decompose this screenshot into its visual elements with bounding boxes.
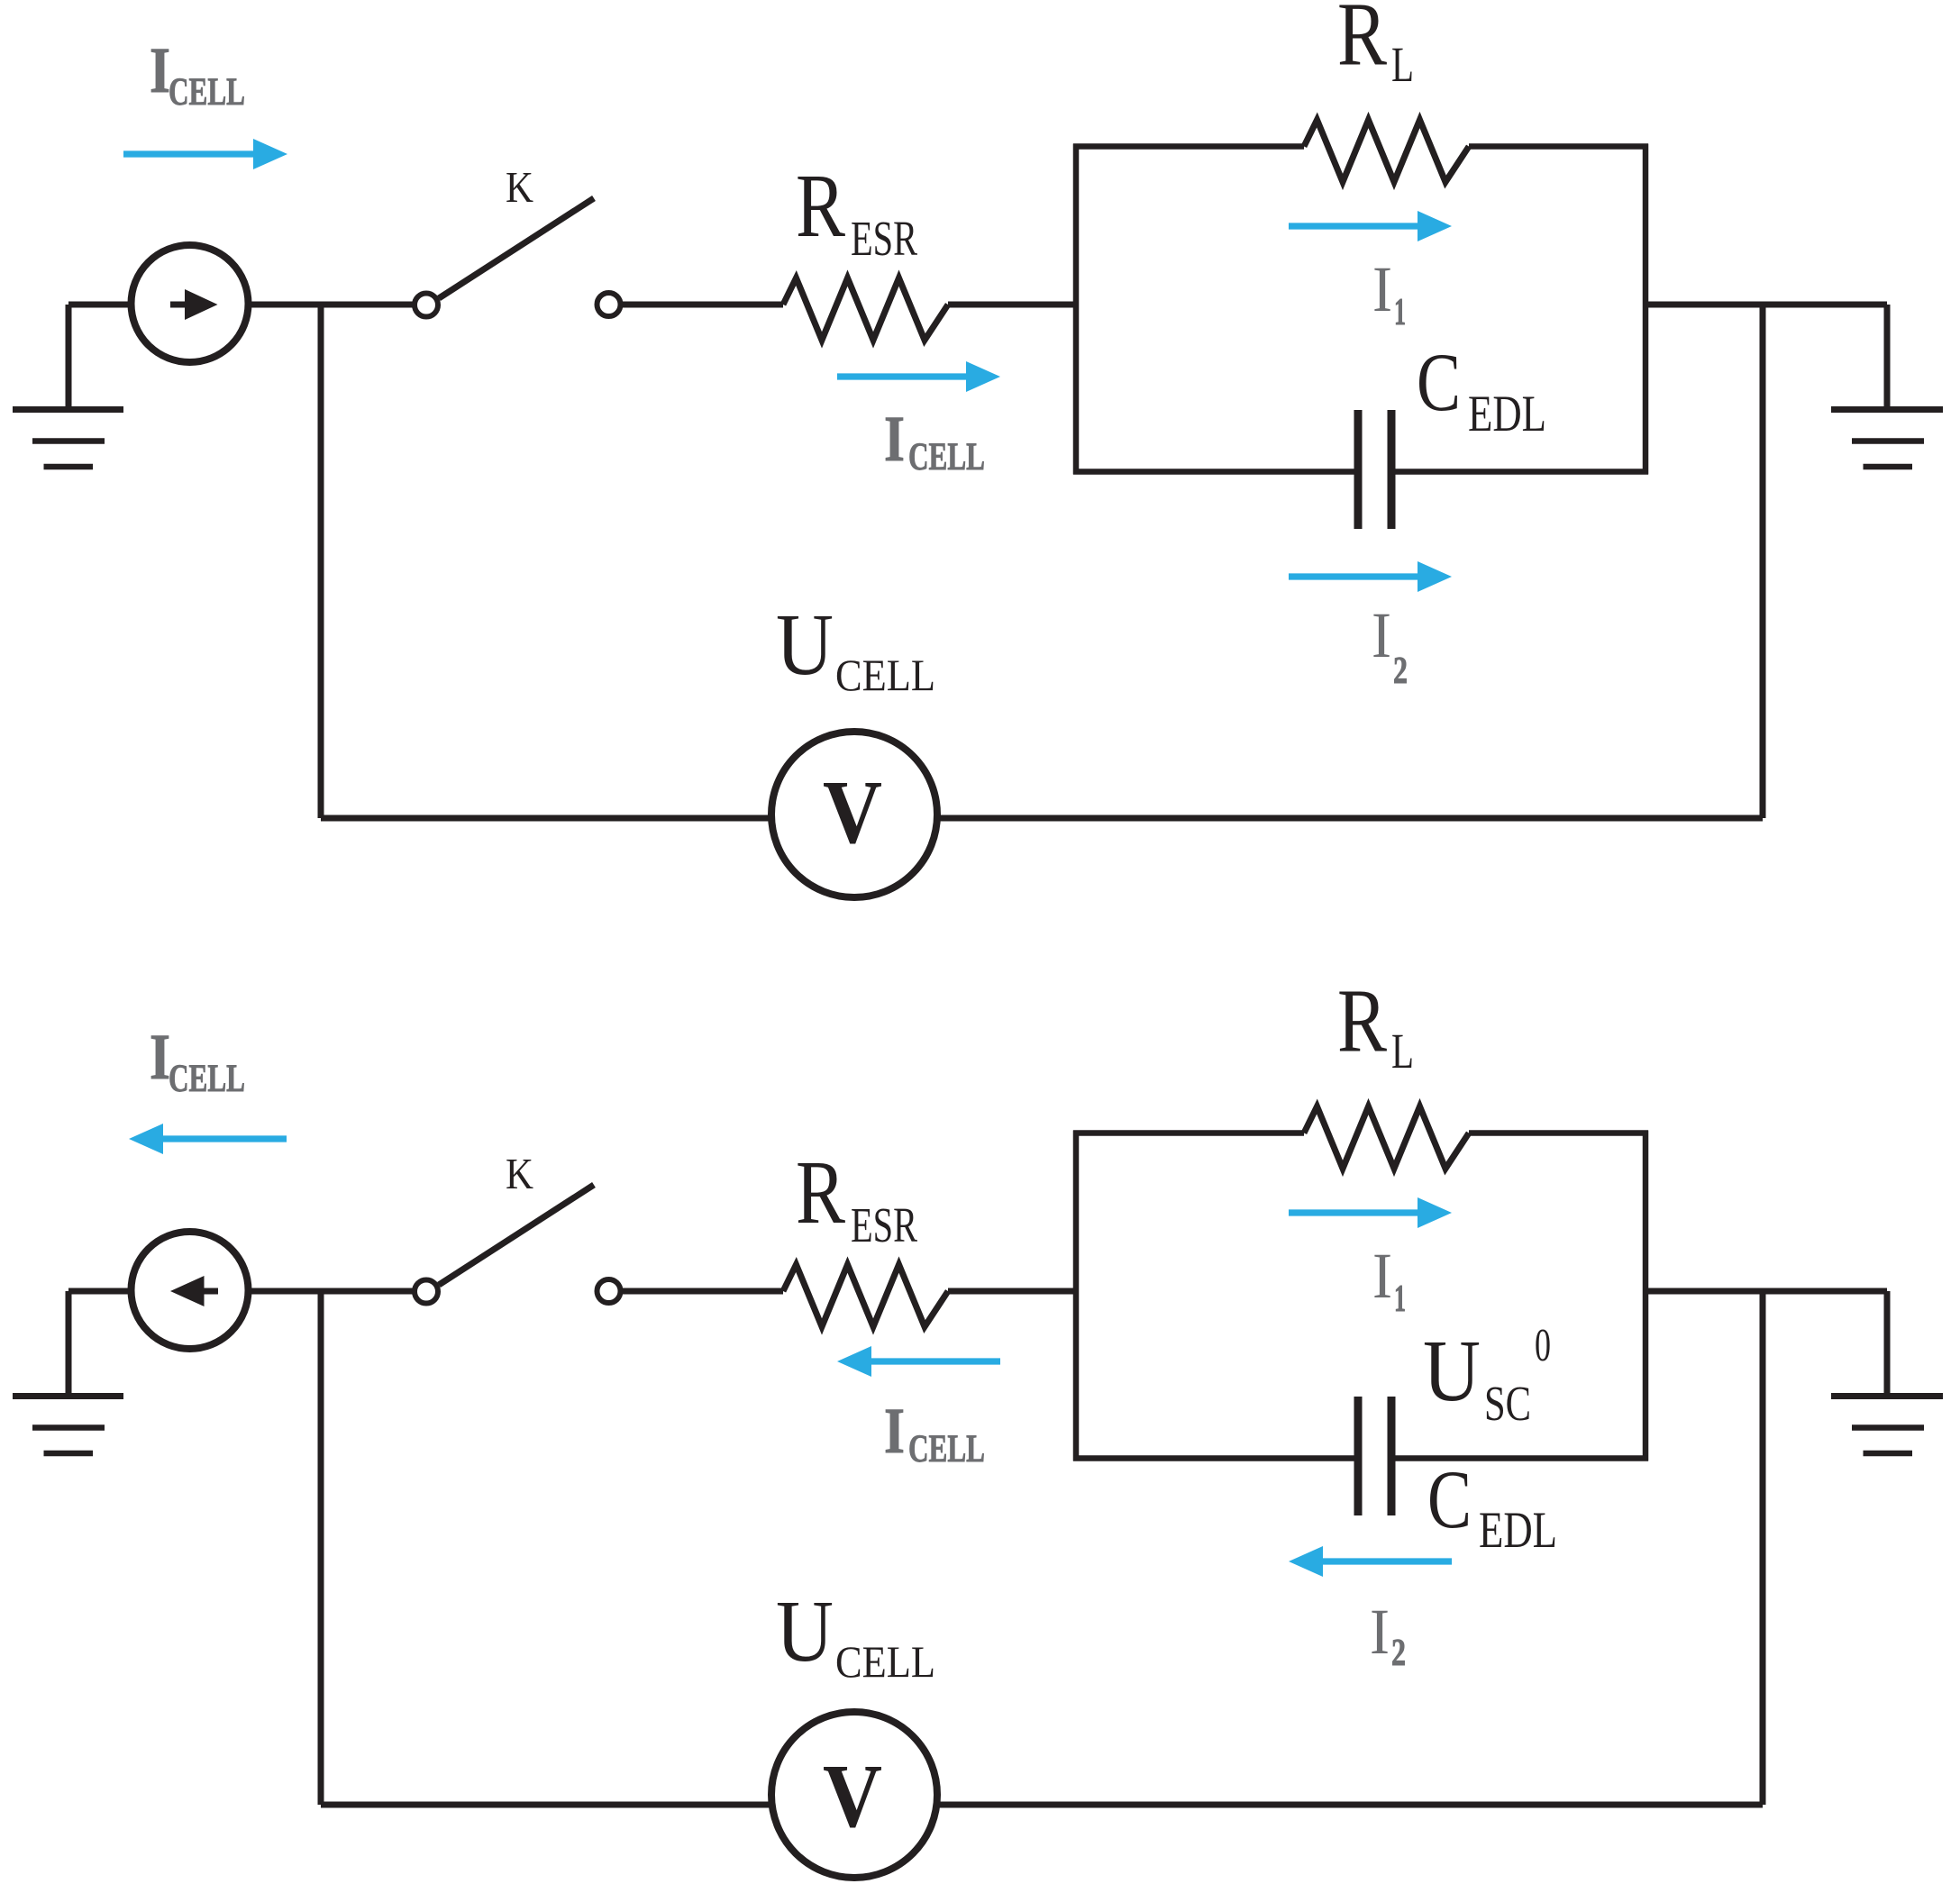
svg-text:U: U bbox=[1423, 1323, 1481, 1419]
svg-text:1: 1 bbox=[1394, 1279, 1406, 1320]
arrow I_1 direction (bottom) bbox=[1289, 1197, 1452, 1228]
svg-text:K: K bbox=[506, 162, 533, 212]
svg-text:CELL: CELL bbox=[169, 71, 245, 114]
svg-text:1: 1 bbox=[1394, 292, 1406, 333]
label C_EDL (top) bbox=[1417, 336, 1546, 442]
svg-text:I: I bbox=[1370, 1596, 1390, 1668]
wire: RC loop bottom right segment (top) bbox=[1391, 469, 1648, 475]
switch K (top) bbox=[415, 198, 621, 317]
label I_2 (top) bbox=[1372, 599, 1408, 692]
svg-text:U: U bbox=[776, 1583, 834, 1680]
svg-text:C: C bbox=[1417, 336, 1461, 428]
resistor R_ESR (bottom) bbox=[783, 1265, 948, 1327]
svg-text:I: I bbox=[1372, 599, 1391, 671]
svg-text:SC: SC bbox=[1484, 1376, 1531, 1431]
svg-text:I: I bbox=[884, 1395, 905, 1467]
wire: ground/current-source to switch pole (bottom) bbox=[68, 1288, 415, 1295]
capacitor C_EDL (top) bbox=[1358, 410, 1391, 529]
arrow I_CELL direction (top left, bottom) bbox=[129, 1124, 287, 1154]
resistor R_L (top) bbox=[1304, 120, 1469, 182]
svg-text:I: I bbox=[150, 1021, 170, 1093]
wire: RC loop bottom right segment (bottom) bbox=[1391, 1455, 1648, 1461]
svg-text:R: R bbox=[1337, 970, 1388, 1071]
wire: RC loop bottom left segment (top) bbox=[1073, 469, 1358, 475]
svg-text:K: K bbox=[506, 1149, 533, 1198]
wire: R_ESR to RC box (bottom) bbox=[948, 1288, 1076, 1295]
label I_CELL (top left, bottom) bbox=[150, 1021, 245, 1100]
wire: ground/current-source to switch pole (top) bbox=[68, 302, 415, 308]
wire: RC loop right edge (bottom) bbox=[1643, 1131, 1649, 1461]
svg-text:EDL: EDL bbox=[1468, 386, 1546, 442]
svg-text:L: L bbox=[1391, 37, 1414, 92]
current source (bottom) bbox=[132, 1232, 249, 1349]
wire: left vertical to voltmeter loop (top) bbox=[318, 305, 324, 818]
svg-text:0: 0 bbox=[1535, 1320, 1551, 1371]
voltmeter V (top) bbox=[771, 732, 937, 897]
svg-text:CELL: CELL bbox=[908, 1428, 985, 1470]
ground (right, bottom) bbox=[1831, 1291, 1943, 1453]
voltmeter V (bottom) bbox=[771, 1712, 937, 1878]
wire: parallel RC loop left edge (bottom) bbox=[1073, 1131, 1080, 1461]
svg-text:CELL: CELL bbox=[835, 1636, 935, 1687]
wire: RC loop bottom left segment (bottom) bbox=[1073, 1455, 1358, 1461]
wire: parallel RC loop left edge (top) bbox=[1073, 144, 1080, 475]
svg-text:CELL: CELL bbox=[835, 650, 935, 700]
resistor R_L (bottom) bbox=[1304, 1106, 1469, 1169]
label I_CELL (under R_ESR, bottom) bbox=[884, 1395, 985, 1470]
current source arrow pointing right (top) bbox=[170, 289, 218, 320]
current source (top) bbox=[132, 245, 249, 362]
arrow I_CELL direction (top left, top) bbox=[123, 139, 287, 169]
arrow I_CELL direction (under R_ESR, top) bbox=[837, 361, 1000, 392]
ground (right, top) bbox=[1831, 305, 1943, 467]
arrow I_2 direction (bottom) bbox=[1289, 1546, 1452, 1577]
svg-text:U: U bbox=[776, 596, 834, 694]
wire: RC loop top left segment (bottom) bbox=[1073, 1130, 1304, 1136]
wire: RC box to right ground (top) bbox=[1645, 302, 1887, 308]
capacitor C_EDL (bottom) bbox=[1358, 1397, 1391, 1515]
label I_1 (bottom) bbox=[1372, 1240, 1406, 1320]
wire: RC loop right edge (top) bbox=[1643, 144, 1649, 475]
label R_ESR (bottom) bbox=[796, 1142, 917, 1252]
svg-text:2: 2 bbox=[1391, 1633, 1406, 1674]
wire: voltmeter loop bottom (bottom) bbox=[321, 1802, 1763, 1808]
svg-text:EDL: EDL bbox=[1479, 1502, 1557, 1559]
label I_1 (top) bbox=[1372, 253, 1406, 333]
wire: right vertical to voltmeter loop (top) bbox=[1760, 305, 1766, 818]
wire: right vertical to voltmeter loop (bottom) bbox=[1760, 1291, 1766, 1805]
label U_CELL (bottom) bbox=[776, 1583, 935, 1687]
svg-text:ESR: ESR bbox=[851, 1197, 917, 1252]
switch K (bottom) bbox=[415, 1185, 621, 1304]
label R_ESR (top) bbox=[796, 155, 917, 266]
svg-text:CELL: CELL bbox=[908, 436, 985, 478]
label U_SC superscript 0 (bottom) bbox=[1423, 1320, 1551, 1431]
label R_L (bottom) bbox=[1337, 970, 1414, 1078]
label I_CELL (under R_ESR, top) bbox=[884, 403, 985, 478]
wire: R_ESR to RC box (top) bbox=[948, 302, 1076, 308]
wire: switch to R_ESR (top) bbox=[620, 302, 783, 308]
label I_2 (bottom) bbox=[1370, 1596, 1406, 1674]
svg-text:2: 2 bbox=[1393, 651, 1408, 692]
svg-text:V: V bbox=[823, 761, 882, 862]
svg-text:I: I bbox=[1372, 253, 1392, 325]
ground (left, top) bbox=[13, 305, 123, 467]
wire: left vertical to voltmeter loop (bottom) bbox=[318, 1291, 324, 1805]
svg-text:R: R bbox=[796, 155, 846, 256]
svg-text:I: I bbox=[150, 34, 170, 106]
arrow I_1 direction (top) bbox=[1289, 211, 1452, 241]
svg-text:L: L bbox=[1391, 1024, 1414, 1078]
resistor R_ESR (top) bbox=[783, 278, 948, 341]
label U_CELL (top) bbox=[776, 596, 935, 700]
wire: RC loop top left segment (top) bbox=[1073, 143, 1304, 150]
ground (left, bottom) bbox=[13, 1291, 123, 1453]
svg-text:V: V bbox=[823, 1745, 882, 1846]
svg-text:R: R bbox=[1337, 0, 1388, 85]
wire: RC loop top right segment (bottom) bbox=[1469, 1130, 1648, 1136]
current source arrow pointing left (bottom) bbox=[170, 1276, 218, 1306]
wire: switch to R_ESR (bottom) bbox=[620, 1288, 783, 1295]
svg-text:ESR: ESR bbox=[851, 211, 917, 266]
arrow I_CELL direction (under R_ESR, bottom) bbox=[837, 1346, 1000, 1377]
label R_L (top) bbox=[1337, 0, 1414, 92]
svg-text:I: I bbox=[1372, 1240, 1392, 1312]
svg-text:C: C bbox=[1427, 1453, 1472, 1545]
wire: RC loop top right segment (top) bbox=[1469, 143, 1648, 150]
arrow I_2 direction (top) bbox=[1289, 561, 1452, 592]
svg-text:R: R bbox=[796, 1142, 846, 1242]
svg-text:CELL: CELL bbox=[169, 1058, 245, 1100]
svg-text:I: I bbox=[884, 403, 905, 475]
label C_EDL (bottom) bbox=[1427, 1453, 1557, 1559]
label I_CELL (top left, top) bbox=[150, 34, 245, 114]
wire: voltmeter loop bottom (top) bbox=[321, 815, 1763, 822]
wire: RC box to right ground (bottom) bbox=[1645, 1288, 1887, 1295]
